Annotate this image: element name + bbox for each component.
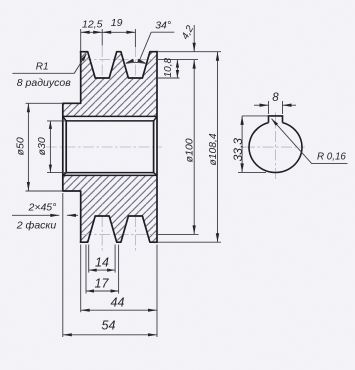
- svg-text:R 0,16: R 0,16: [317, 151, 346, 162]
- svg-text:44: 44: [111, 296, 125, 310]
- svg-text:34°: 34°: [155, 20, 171, 32]
- svg-text:ø100: ø100: [184, 138, 196, 162]
- svg-text:2 фаски: 2 фаски: [16, 220, 57, 232]
- svg-text:2×45°: 2×45°: [28, 202, 57, 214]
- svg-text:ø30: ø30: [36, 137, 48, 155]
- svg-text:54: 54: [102, 318, 116, 332]
- svg-text:19: 19: [111, 17, 123, 29]
- svg-text:R1: R1: [36, 62, 49, 73]
- svg-text:ø108,4: ø108,4: [208, 133, 219, 165]
- svg-text:8: 8: [272, 92, 279, 104]
- svg-text:33,3: 33,3: [231, 138, 245, 162]
- svg-text:ø50: ø50: [15, 137, 27, 155]
- svg-text:8 радиусов: 8 радиусов: [17, 77, 71, 89]
- svg-text:14: 14: [95, 255, 109, 269]
- svg-text:10,8: 10,8: [163, 57, 174, 77]
- svg-text:12,5: 12,5: [82, 19, 103, 31]
- svg-text:17: 17: [95, 276, 110, 290]
